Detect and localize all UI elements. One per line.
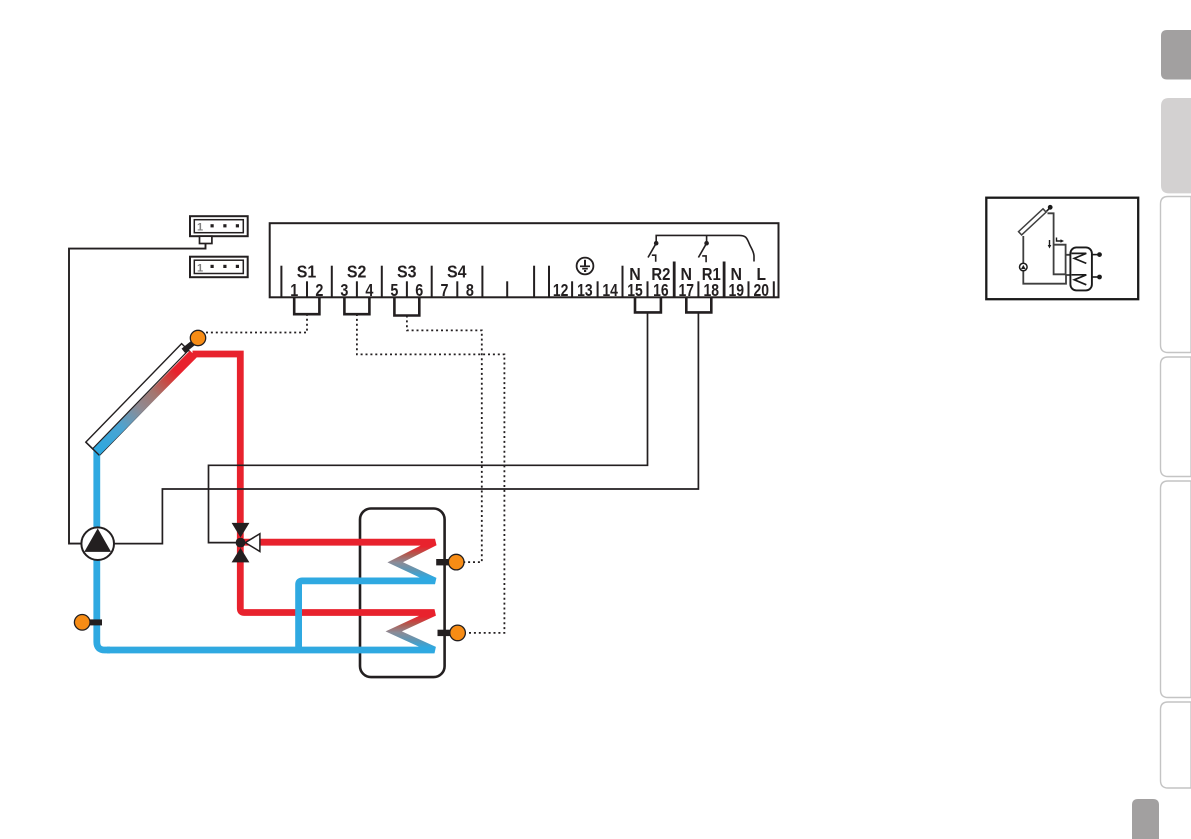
svg-text:14: 14 [602, 280, 618, 300]
terminal block box [270, 223, 779, 297]
relay R1 contact hook [702, 256, 706, 262]
wire: connector to pump (left loop) [69, 244, 206, 544]
svg-text:S1: S1 [297, 262, 317, 282]
bracket terminals 17-18 [686, 297, 711, 312]
relay section dividers (thick) [674, 262, 724, 298]
svg-text:1: 1 [290, 280, 298, 300]
svg-text:15: 15 [627, 280, 643, 300]
inset sensor stub [1047, 209, 1050, 212]
inset valve arrow [1057, 238, 1062, 242]
terminal group dividers (tall) [281, 266, 622, 298]
svg-text:20: 20 [753, 280, 769, 300]
upper tank sensor (orange) [448, 554, 464, 570]
lower coil circuit: valve down, into tank, zigzag, back out (gradient) [107, 544, 435, 650]
svg-text:17: 17 [679, 280, 695, 300]
sensor wire S3 (dotted, terminals 5-6 to upper tank sensor) [407, 316, 482, 563]
relay R2 switch arm [648, 243, 656, 257]
inset pump [1020, 263, 1028, 271]
bracket terminals 5-6 [394, 297, 419, 315]
sensor wire S2 (dotted, terminals 3-4 to lower tank sensor) [357, 314, 505, 633]
collector sensor stub [183, 343, 193, 351]
bracket terminals 1-2 [294, 297, 319, 314]
storage tank [360, 509, 445, 678]
svg-text:1: 1 [197, 222, 203, 234]
inset upper coil [1072, 253, 1087, 263]
3-way valve white triangle [245, 534, 260, 552]
lower tank sensor stub [438, 630, 452, 636]
inset collector [1019, 209, 1047, 235]
return pipe sensor (orange) [74, 615, 90, 631]
terminal dividers (short) [307, 281, 774, 297]
side tab white 2 [1161, 357, 1191, 477]
svg-text:18: 18 [704, 280, 720, 300]
inset upper tank sensor [1092, 254, 1098, 256]
inset valve branch pipes [1054, 245, 1072, 275]
svg-text:2: 2 [315, 280, 323, 300]
side tab white 4 [1161, 702, 1191, 788]
display connector outer box [190, 216, 248, 236]
second connector inner box [194, 260, 243, 273]
side tab light [1161, 98, 1191, 193]
side tab dark top [1161, 30, 1191, 80]
cold pipe (blue): pump return up to collector [97, 450, 110, 651]
lower tank sensor (orange) [450, 625, 466, 641]
svg-text:7: 7 [441, 280, 449, 300]
wire: relay R1 terminals 17/18 to pump [114, 312, 699, 543]
upper coil circuit: valve right, into tank, zigzag, back out and down (gradient) [244, 542, 435, 650]
svg-text:19: 19 [729, 280, 745, 300]
svg-text:S2: S2 [347, 262, 367, 282]
second connector pins [211, 265, 214, 268]
terminal numbers [290, 280, 769, 300]
bottom corner dark tab [1132, 799, 1159, 839]
return pipe sensor stub [89, 619, 103, 625]
relay R1 switch arm [698, 243, 706, 257]
collector absorber gradient pipe [96, 354, 193, 452]
inset lower coil [1072, 275, 1087, 285]
relay R2 pivot dot [654, 241, 659, 246]
second connector outer box [190, 257, 248, 278]
display connector pins [211, 224, 214, 227]
bracket terminals 3-4 [344, 297, 369, 314]
inset pipe: collector down through pump [1023, 236, 1066, 284]
upper tank sensor stub [436, 559, 449, 565]
svg-text:3: 3 [340, 280, 348, 300]
svg-text:5: 5 [390, 280, 398, 300]
relay R1 drop [706, 235, 708, 242]
svg-text:S4: S4 [447, 262, 467, 282]
pump triangle [84, 528, 111, 552]
svg-text:1: 1 [197, 262, 203, 274]
svg-text:6: 6 [415, 280, 423, 300]
collector bottom end cap [86, 442, 100, 455]
collector bottom end cap overlay [86, 442, 100, 455]
svg-text:4: 4 [365, 280, 373, 300]
relay R1 pivot dot [704, 241, 709, 246]
terminal group labels [297, 262, 766, 284]
3-way valve center dot [236, 538, 246, 548]
side tab white 3 [1161, 481, 1191, 698]
side tab white 1 [1161, 197, 1191, 353]
display connector inner box [194, 220, 243, 233]
inset collector sensor dot [1048, 205, 1053, 210]
hot pipe (red): collector to valve [193, 354, 241, 546]
svg-text:12: 12 [553, 280, 569, 300]
collector sensor (orange) [190, 330, 205, 345]
inset lower tank sensor [1092, 276, 1098, 278]
bracket terminals 15-16 [635, 297, 661, 312]
inset frame [986, 198, 1138, 300]
inset tank [1070, 247, 1092, 290]
inset pipe: collector to tank junction [1048, 213, 1067, 274]
collector panel body [86, 344, 195, 456]
relay feed line from L [656, 235, 754, 261]
wire: relay R2 terminals 15/16 to valve [209, 312, 648, 542]
inset flow arrow down [1049, 240, 1051, 246]
relay R2 contact hook [652, 255, 656, 262]
pump circle [81, 527, 114, 560]
display connector plug tab [200, 236, 212, 243]
svg-text:8: 8 [466, 280, 474, 300]
svg-text:13: 13 [577, 280, 593, 300]
sensor wire S1 (dotted, collector sensor to terminals 1-2) [206, 314, 307, 333]
svg-text:S3: S3 [397, 262, 417, 282]
collector mid boundary line [93, 350, 189, 449]
3-way valve lower triangle [232, 548, 250, 563]
svg-text:16: 16 [653, 280, 669, 300]
earth symbol [577, 258, 594, 275]
3-way valve upper triangle [232, 523, 250, 538]
